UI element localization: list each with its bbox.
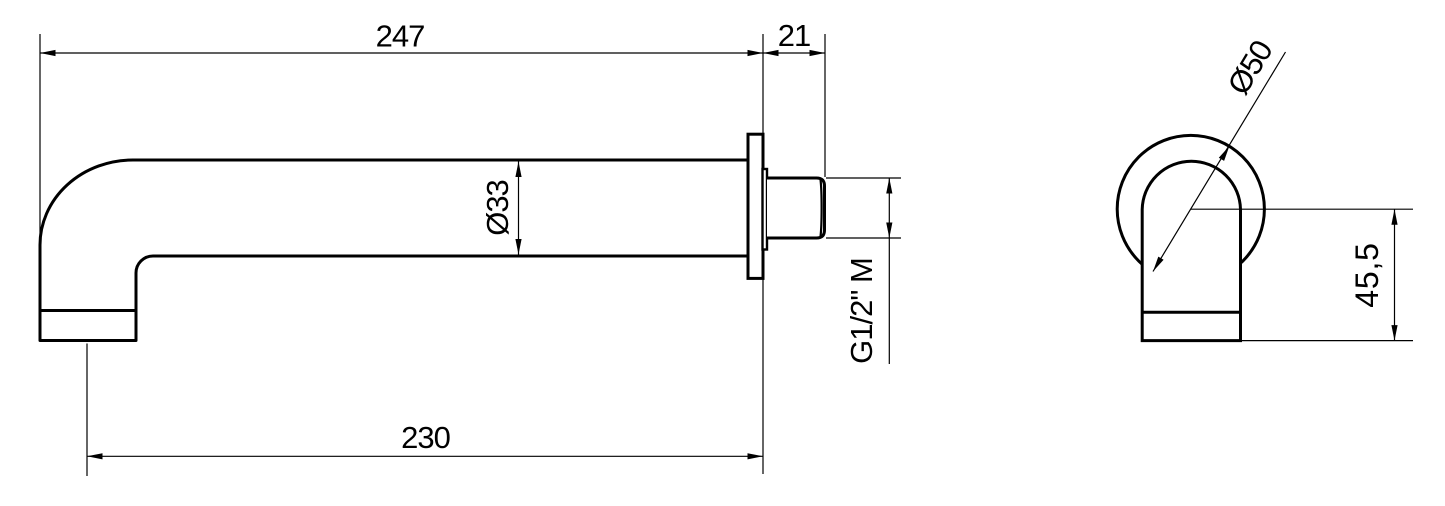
dim 230 arrow right [748,453,764,459]
dim Ø33 arrow top [515,162,521,178]
dim 247 arrow right [748,50,764,56]
svg-text:Ø33: Ø33 [480,180,515,236]
wall flange (side view) [748,134,763,278]
thread G1/2 (side view) [767,178,825,238]
dim 21 arrow right [810,50,826,56]
dim 230 arrow left [87,453,103,459]
thread chamfer line [821,180,822,237]
dim 247 extension line left [39,34,41,243]
dim G1/2 line with tail [888,178,890,364]
dim Ø50 arrow lower [1153,257,1164,272]
dim 247 arrow left [40,50,56,56]
dim 21 line [763,52,825,54]
dim 247 extension line right (lower part, to 230 dim) [762,279,764,474]
dim 45,5 extension line bottom [1241,340,1414,342]
dim 45,5 arrow top [1391,209,1397,225]
svg-text:21: 21 [778,18,810,53]
aerator cap line (side view) [40,309,136,312]
dim G1/2 extension line top [826,177,901,179]
dim 247 line [40,52,763,54]
dim Ø50 leader line [1153,52,1286,272]
dim 21 extension line [824,34,826,177]
dim 230 line [87,455,763,457]
spout body outline (side view) [40,160,748,341]
dim Ø50 arrow upper [1219,146,1230,161]
dim G1/2 arrow top [886,178,892,194]
centerline (front view) [1191,208,1413,210]
dim 247 extension line right (upper part) [762,34,764,134]
dim G1/2 arrow bottom [886,223,892,239]
dim 45,5 line [1394,209,1396,340]
dim 21 arrow left [763,50,779,56]
spout tube (front view) [1142,161,1240,340]
svg-text:45,5: 45,5 [1349,242,1385,307]
dim 45,5 arrow bottom [1391,325,1397,341]
dim Ø33 arrow bottom [515,239,521,255]
collar behind thread [763,169,768,250]
dim G1/2 extension line bottom [826,237,901,239]
wall flange circle (front view) [1117,135,1264,282]
dim 230 extension line (outlet center) [86,344,88,477]
svg-text:230: 230 [401,420,450,455]
svg-text:247: 247 [376,19,425,54]
aerator cap line (front view) [1142,311,1240,314]
dim Ø33 line [518,162,520,255]
svg-text:G1/2" M: G1/2" M [844,258,879,364]
